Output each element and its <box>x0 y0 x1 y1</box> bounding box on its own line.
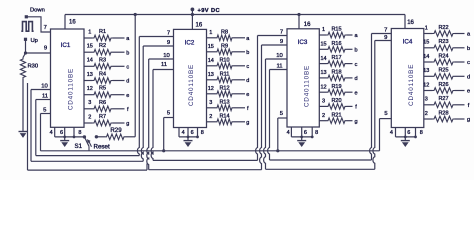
svg-text:R24: R24 <box>438 53 448 59</box>
svg-text:12: 12 <box>208 86 214 92</box>
svg-text:8: 8 <box>315 130 318 136</box>
svg-text:R9: R9 <box>221 43 228 49</box>
svg-text:1: 1 <box>88 29 91 35</box>
svg-text:3: 3 <box>209 100 212 106</box>
svg-text:b: b <box>126 50 129 56</box>
svg-text:15: 15 <box>87 44 93 50</box>
svg-text:14: 14 <box>423 54 429 60</box>
svg-text:S1: S1 <box>75 143 83 150</box>
svg-text:R18: R18 <box>331 70 341 76</box>
svg-text:R7: R7 <box>99 114 106 120</box>
svg-text:14: 14 <box>208 58 214 64</box>
svg-text:d: d <box>126 79 129 85</box>
svg-text:Reset: Reset <box>94 143 110 150</box>
svg-text:6: 6 <box>304 130 307 136</box>
svg-text:8: 8 <box>420 130 423 136</box>
svg-text:R13: R13 <box>219 99 229 105</box>
svg-text:c: c <box>126 65 129 71</box>
svg-text:14: 14 <box>87 58 93 64</box>
svg-text:12: 12 <box>87 86 93 92</box>
svg-text:g: g <box>354 119 357 125</box>
svg-text:4: 4 <box>50 130 53 136</box>
svg-text:4: 4 <box>287 130 290 136</box>
svg-text:c: c <box>246 64 249 70</box>
svg-text:IC3: IC3 <box>298 39 308 46</box>
svg-text:R20: R20 <box>331 98 341 104</box>
svg-text:R3: R3 <box>99 57 106 63</box>
svg-text:11: 11 <box>276 63 282 69</box>
svg-text:15: 15 <box>208 44 214 50</box>
svg-text:b: b <box>354 48 357 54</box>
svg-text:2: 2 <box>425 111 428 117</box>
svg-text:9: 9 <box>384 35 387 41</box>
svg-text:CD40110BE: CD40110BE <box>304 65 311 107</box>
svg-text:6: 6 <box>60 130 63 136</box>
svg-text:R5: R5 <box>99 86 106 92</box>
svg-text:R21: R21 <box>331 112 341 118</box>
svg-text:R12: R12 <box>219 85 229 91</box>
svg-text:5: 5 <box>280 111 283 117</box>
svg-text:R27: R27 <box>438 96 448 102</box>
svg-text:4: 4 <box>182 130 185 136</box>
svg-text:CD40110BE: CD40110BE <box>408 64 415 106</box>
svg-text:g: g <box>467 117 470 123</box>
svg-text:12: 12 <box>423 82 429 88</box>
svg-text:R30: R30 <box>28 64 39 70</box>
svg-text:7: 7 <box>384 27 387 33</box>
svg-text:R2: R2 <box>99 43 106 49</box>
svg-text:15: 15 <box>423 40 429 46</box>
svg-text:R1: R1 <box>99 29 106 35</box>
svg-text:R26: R26 <box>438 82 448 88</box>
svg-text:12: 12 <box>320 84 326 90</box>
svg-text:9: 9 <box>167 40 170 46</box>
svg-text:13: 13 <box>87 72 93 78</box>
svg-text:CD40110BE: CD40110BE <box>67 68 74 110</box>
svg-text:R17: R17 <box>331 55 341 61</box>
svg-text:7: 7 <box>280 29 283 35</box>
svg-text:13: 13 <box>320 70 326 76</box>
svg-text:14: 14 <box>320 56 326 62</box>
svg-text:R23: R23 <box>438 39 448 45</box>
svg-text:R6: R6 <box>99 100 106 106</box>
svg-text:8: 8 <box>201 130 204 136</box>
svg-text:1: 1 <box>209 30 212 36</box>
svg-text:b: b <box>467 46 470 52</box>
svg-text:CD40110BE: CD40110BE <box>188 64 195 106</box>
svg-text:8: 8 <box>78 130 81 136</box>
svg-text:3: 3 <box>322 99 325 105</box>
svg-text:e: e <box>354 90 357 96</box>
svg-text:g: g <box>246 120 249 126</box>
svg-text:15: 15 <box>320 42 326 48</box>
svg-text:R4: R4 <box>99 72 106 78</box>
svg-text:IC2: IC2 <box>185 40 195 47</box>
svg-text:Up: Up <box>31 38 38 44</box>
svg-text:d: d <box>467 75 470 81</box>
svg-text:+9V DC: +9V DC <box>198 8 220 14</box>
svg-text:3: 3 <box>88 100 91 106</box>
svg-text:11: 11 <box>161 62 167 68</box>
svg-text:R8: R8 <box>221 29 228 35</box>
svg-text:e: e <box>246 92 249 98</box>
svg-text:R16: R16 <box>331 41 341 47</box>
svg-text:R11: R11 <box>220 71 230 77</box>
svg-text:R22: R22 <box>438 25 448 31</box>
svg-text:R28: R28 <box>438 110 448 116</box>
svg-text:5: 5 <box>167 110 170 116</box>
svg-text:16: 16 <box>69 19 76 25</box>
svg-text:b: b <box>246 50 249 56</box>
svg-text:4: 4 <box>390 130 393 136</box>
svg-text:c: c <box>355 62 358 68</box>
svg-text:13: 13 <box>208 72 214 78</box>
svg-text:7: 7 <box>167 30 170 36</box>
svg-text:R29: R29 <box>110 127 122 134</box>
svg-text:Down: Down <box>30 8 45 14</box>
svg-text:R19: R19 <box>331 84 341 90</box>
svg-text:6: 6 <box>191 130 194 136</box>
svg-text:1: 1 <box>322 27 325 33</box>
svg-text:R10: R10 <box>219 57 229 63</box>
svg-text:IC4: IC4 <box>403 39 413 46</box>
svg-text:IC1: IC1 <box>61 42 71 49</box>
svg-text:d: d <box>246 78 249 84</box>
svg-text:16: 16 <box>407 20 414 26</box>
svg-text:5: 5 <box>384 111 387 117</box>
svg-text:13: 13 <box>423 68 429 74</box>
svg-text:R25: R25 <box>438 68 448 74</box>
svg-text:1: 1 <box>425 25 428 31</box>
svg-text:11: 11 <box>42 93 48 99</box>
svg-text:6: 6 <box>407 130 410 136</box>
svg-text:9: 9 <box>44 45 47 51</box>
svg-text:R15: R15 <box>331 27 341 33</box>
svg-text:g: g <box>126 121 129 127</box>
svg-text:10: 10 <box>163 53 170 59</box>
svg-text:7: 7 <box>44 25 47 31</box>
svg-text:16: 16 <box>196 22 203 28</box>
svg-text:16: 16 <box>304 22 311 28</box>
svg-text:3: 3 <box>425 97 428 103</box>
svg-text:2: 2 <box>209 114 212 120</box>
svg-text:e: e <box>467 89 470 95</box>
svg-text:2: 2 <box>88 114 91 120</box>
svg-text:9: 9 <box>280 39 283 45</box>
svg-text:2: 2 <box>322 113 325 119</box>
svg-text:d: d <box>354 76 357 82</box>
svg-text:c: c <box>467 60 470 66</box>
svg-text:10: 10 <box>276 53 283 59</box>
svg-text:10: 10 <box>41 83 48 89</box>
svg-text:e: e <box>126 93 129 99</box>
svg-text:R14: R14 <box>219 113 229 119</box>
